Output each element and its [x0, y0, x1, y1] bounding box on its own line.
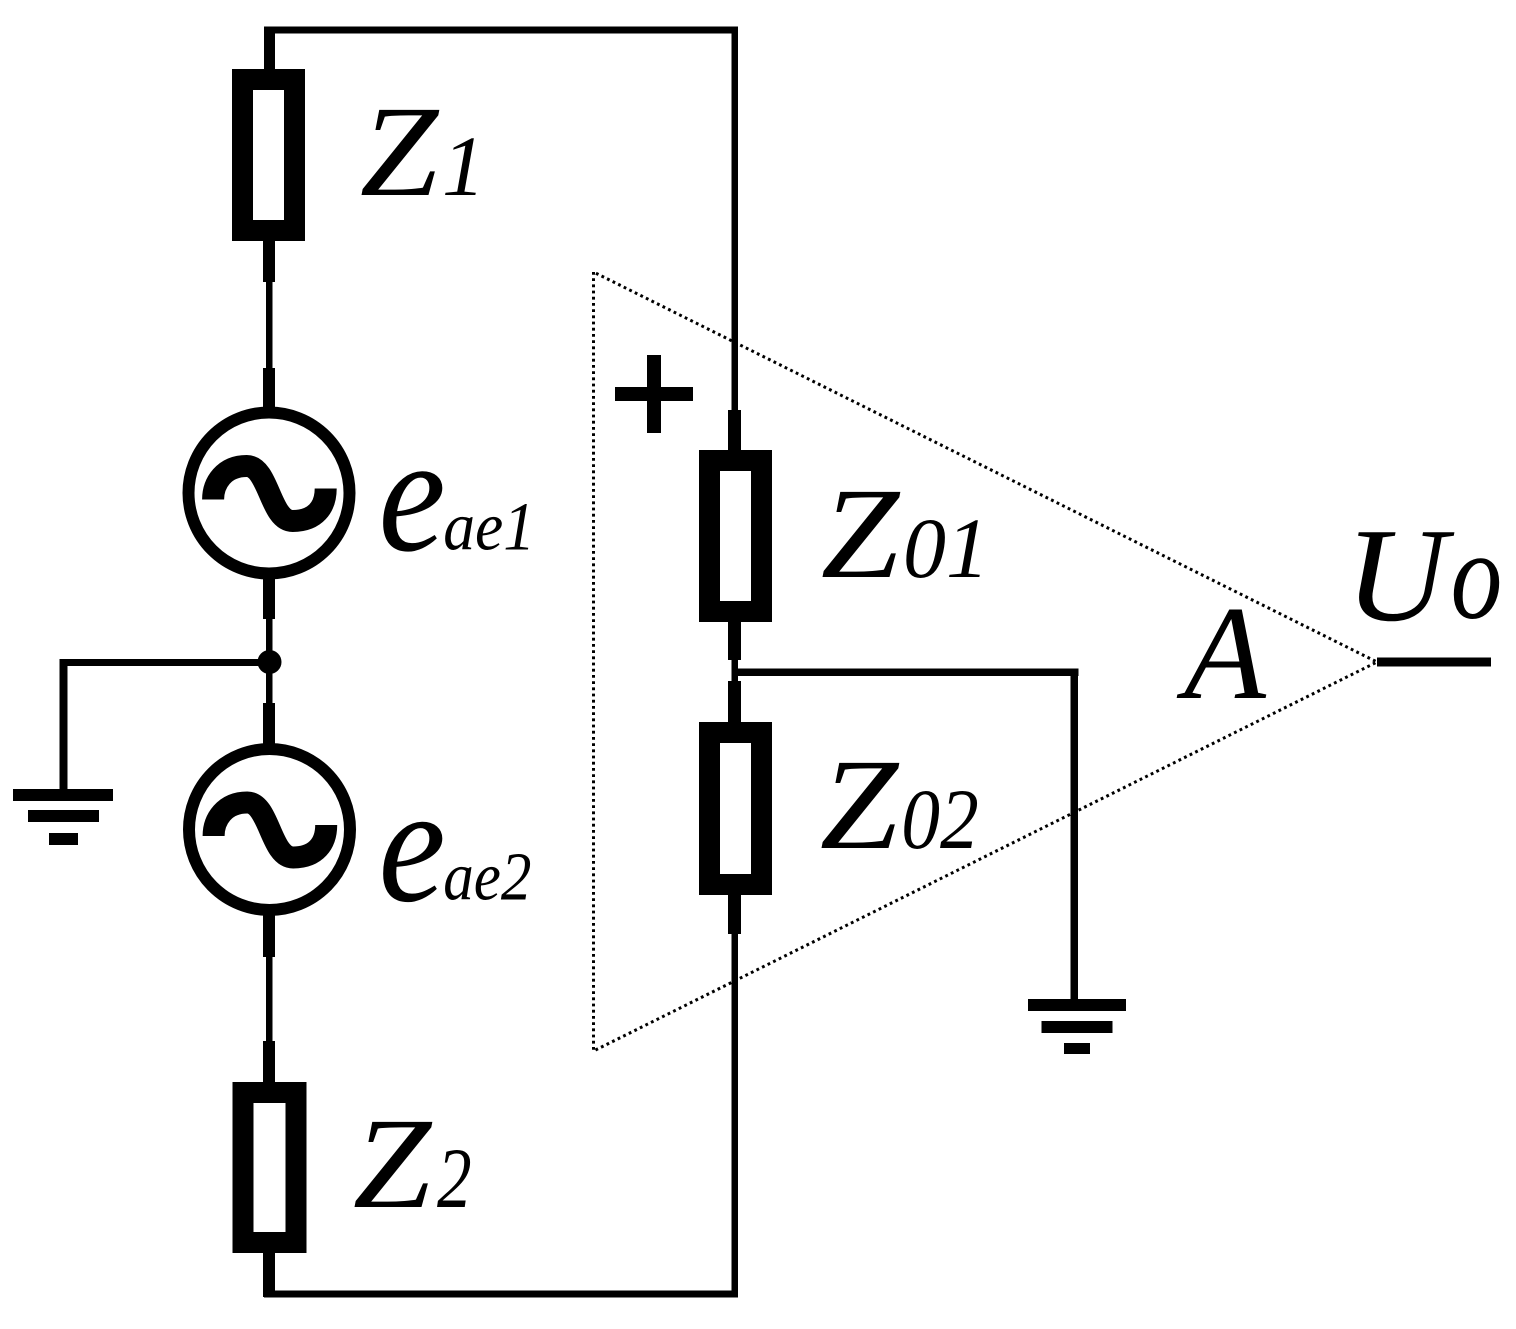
svg-text:e: e [379, 402, 446, 587]
wire e_ae2 to Z2 [263, 914, 275, 957]
svg-text:Z: Z [360, 80, 440, 224]
wire feedback node to right ground [732, 669, 1079, 677]
wire output [1377, 658, 1491, 667]
wire right vertical from bottom to Z02 [732, 934, 739, 1294]
AC source e_ae1 [189, 413, 350, 574]
svg-text:U: U [1345, 501, 1455, 649]
wire node to e_ae2 [266, 665, 273, 705]
wire Z01 to Z02 [728, 622, 741, 660]
svg-text:Z: Z [821, 462, 901, 606]
svg-text:ae1: ae1 [443, 489, 535, 565]
wire bottom horizontal [264, 1291, 738, 1298]
wire lead from top wire into Z1 [264, 27, 275, 70]
svg-text:A: A [1176, 579, 1267, 727]
svg-text:01: 01 [903, 500, 989, 596]
svg-text:2: 2 [437, 1130, 472, 1226]
impedance Z2 [243, 1093, 296, 1243]
wire top horizontal [264, 27, 738, 34]
svg-text:02: 02 [901, 771, 979, 867]
impedance Z02 [710, 733, 762, 885]
label Uo [1345, 501, 1502, 649]
wire Z2 to bottom wire [263, 1253, 275, 1297]
wire e_ae1 to node [263, 578, 275, 619]
svg-text:o: o [1451, 507, 1503, 646]
impedance Z1 [243, 80, 295, 231]
label e_ae1 [379, 402, 536, 587]
wire Z02 lead bottom [728, 895, 741, 934]
label e_ae2 [379, 753, 532, 938]
svg-text:Z: Z [353, 1092, 433, 1236]
impedance Z01 [710, 461, 762, 612]
wire right vertical from top to Z01 [732, 27, 739, 417]
op-amp A dotted triangle [594, 272, 1378, 1051]
svg-text:Z: Z [820, 733, 900, 877]
label Z2 [353, 1092, 472, 1236]
label Z02 [820, 733, 979, 877]
AC source e_ae2 [189, 749, 350, 910]
ground right [1028, 999, 1126, 1011]
wire Z1 to e_ae1 [263, 241, 275, 282]
label Z01 [821, 462, 989, 606]
node junction dot [258, 650, 282, 674]
plus noninverting input marker [615, 387, 693, 401]
svg-text:e: e [379, 753, 446, 938]
svg-text:ae2: ae2 [443, 839, 531, 915]
ground left [13, 789, 113, 801]
svg-text:1: 1 [442, 118, 485, 214]
label Z1 [360, 80, 485, 224]
wire node to left ground [60, 659, 260, 666]
